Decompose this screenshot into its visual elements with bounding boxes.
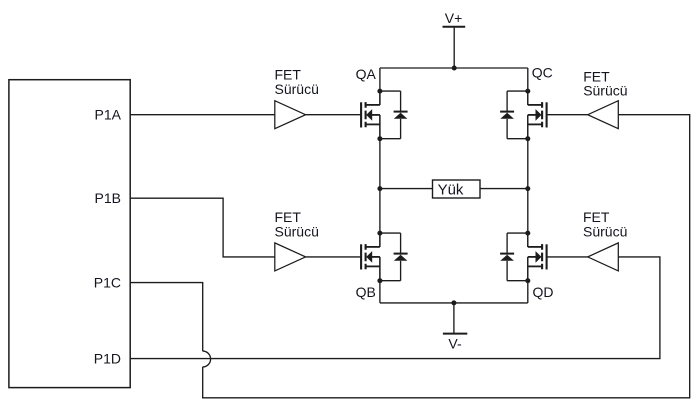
wire left bridge leg	[379, 68, 381, 303]
power terminal V- bar	[443, 333, 467, 335]
transistor QD substrate arrow	[536, 251, 542, 263]
body diode of QA cathode lead	[400, 91, 402, 113]
svg-text:QC: QC	[532, 65, 553, 81]
body diode of QB cathode lead	[400, 233, 402, 255]
node V- rail junction	[451, 300, 456, 305]
svg-text:P1A: P1A	[95, 107, 122, 123]
transistor QD source lead	[527, 257, 529, 281]
transistor QC drain stub	[528, 104, 542, 106]
wire QD source to body diode	[507, 280, 528, 282]
body diode of QC anode triangle	[500, 113, 514, 119]
IC U1 (microcontroller port block)	[9, 80, 130, 388]
wire P1C bottom run to QC driver input	[203, 115, 690, 398]
transistor QC body stub	[528, 114, 538, 116]
transistor QB channel segments	[365, 244, 367, 269]
node QC drain junction	[525, 89, 530, 94]
transistor QD drain stub	[528, 246, 542, 248]
svg-text:QA: QA	[356, 66, 377, 82]
FET driver buffer U5 (QD gate driver)	[588, 243, 619, 271]
power terminal V+ bar	[443, 26, 466, 28]
body diode of QD anode lead	[506, 261, 508, 281]
body diode of QC anode lead	[506, 119, 508, 139]
wire QC source to body diode	[507, 138, 528, 140]
node QA drain junction	[377, 89, 382, 94]
svg-text:Yük: Yük	[438, 182, 464, 199]
wire mid rail right (load to QC/QD node)	[480, 188, 528, 190]
body diode of QC cathode bar	[500, 111, 514, 113]
wire U3 output to QB gate	[306, 256, 362, 258]
svg-text:Sürücü: Sürücü	[583, 83, 627, 99]
wire hop of P1C over P1D wire	[203, 351, 211, 367]
wire P1D to QD driver input	[130, 257, 660, 359]
svg-text:Sürücü: Sürücü	[275, 224, 319, 240]
transistor QC gate bar	[546, 102, 548, 127]
body diode of QD cathode bar	[500, 253, 514, 255]
svg-text:P1C: P1C	[94, 275, 121, 291]
transistor QA drain lead	[379, 91, 381, 105]
load resistor Yük (box)	[433, 180, 481, 198]
svg-text:V-: V-	[448, 336, 462, 352]
FET driver buffer U2 (QA gate driver)	[275, 101, 306, 129]
node QB source junction	[377, 278, 382, 283]
transistor QA channel segments	[365, 102, 367, 127]
body diode of QA cathode bar	[394, 111, 408, 113]
svg-text:V+: V+	[445, 10, 463, 26]
svg-text:FET: FET	[275, 209, 302, 225]
transistor QD source stub	[528, 265, 542, 267]
transistor QD channel segments	[541, 244, 543, 269]
wire QB source to body diode	[380, 280, 401, 282]
transistor QB body stub	[370, 256, 380, 258]
body diode of QB anode triangle	[394, 255, 408, 261]
transistor QB gate bar	[360, 244, 362, 269]
transistor QD gate bar	[546, 244, 548, 269]
transistor QA gate bar	[360, 102, 362, 127]
wire P1C down segment	[130, 283, 203, 352]
body diode of QA anode lead	[400, 119, 402, 139]
svg-text:FET: FET	[275, 67, 302, 83]
wire right bridge leg	[527, 68, 529, 303]
transistor QD body stub	[528, 256, 538, 258]
FET driver buffer U3 (QB gate driver)	[275, 243, 306, 271]
transistor QA substrate arrow	[366, 109, 372, 121]
body diode of QB anode lead	[400, 261, 402, 281]
wire U4 output to QC gate	[546, 114, 587, 116]
transistor QC drain lead	[527, 91, 529, 105]
wire P1A to QA driver input	[130, 114, 275, 116]
wire QC drain to body diode	[507, 90, 528, 92]
transistor QA source stub	[366, 123, 380, 125]
svg-text:QB: QB	[356, 284, 376, 300]
body diode of QA anode triangle	[394, 113, 408, 119]
transistor QC substrate arrow	[536, 109, 542, 121]
wire mid rail left (QA/QB node to load)	[380, 188, 433, 190]
transistor QB source lead	[379, 257, 381, 281]
transistor QC source stub	[528, 123, 542, 125]
transistor QB drain lead	[379, 233, 381, 247]
node mid-right junction	[525, 186, 530, 191]
wire U2 output to QA gate	[306, 114, 362, 116]
svg-text:P1B: P1B	[95, 190, 121, 206]
wire QA source to body diode	[380, 138, 401, 140]
svg-text:Sürücü: Sürücü	[275, 81, 319, 97]
power terminal V- stem	[453, 303, 455, 334]
svg-text:P1D: P1D	[94, 351, 121, 367]
wire U5 output to QD gate	[546, 256, 587, 258]
transistor QB substrate arrow	[366, 251, 372, 263]
node QB drain junction	[377, 231, 382, 236]
transistor QC channel segments	[541, 102, 543, 127]
transistor QA source lead	[379, 115, 381, 139]
body diode of QB cathode bar	[394, 253, 408, 255]
transistor QC source lead	[527, 115, 529, 139]
wire bottom rail	[380, 302, 528, 304]
wire QB drain to body diode	[380, 232, 401, 234]
wire QA drain to body diode	[380, 90, 401, 92]
wire QD drain to body diode	[507, 232, 528, 234]
body diode of QC cathode lead	[506, 91, 508, 113]
wire P1B to QB driver input	[130, 198, 275, 257]
node QC source junction	[525, 136, 530, 141]
wire V+ top rail	[380, 67, 528, 69]
FET driver buffer U4 (QC gate driver)	[588, 101, 619, 129]
node QD source junction	[525, 278, 530, 283]
node QD drain junction	[525, 231, 530, 236]
power terminal V+ stem	[453, 27, 455, 68]
svg-text:Sürücü: Sürücü	[583, 223, 627, 239]
node QA source junction	[377, 136, 382, 141]
body diode of QD anode triangle	[500, 255, 514, 261]
body diode of QD cathode lead	[506, 233, 508, 255]
transistor QD drain lead	[527, 233, 529, 247]
transistor QB drain stub	[366, 246, 380, 248]
svg-text:QD: QD	[533, 284, 554, 300]
node V+ rail junction	[452, 66, 457, 71]
transistor QB source stub	[366, 265, 380, 267]
transistor QA body stub	[370, 114, 380, 116]
transistor QA drain stub	[366, 104, 380, 106]
node mid-left junction	[377, 186, 382, 191]
